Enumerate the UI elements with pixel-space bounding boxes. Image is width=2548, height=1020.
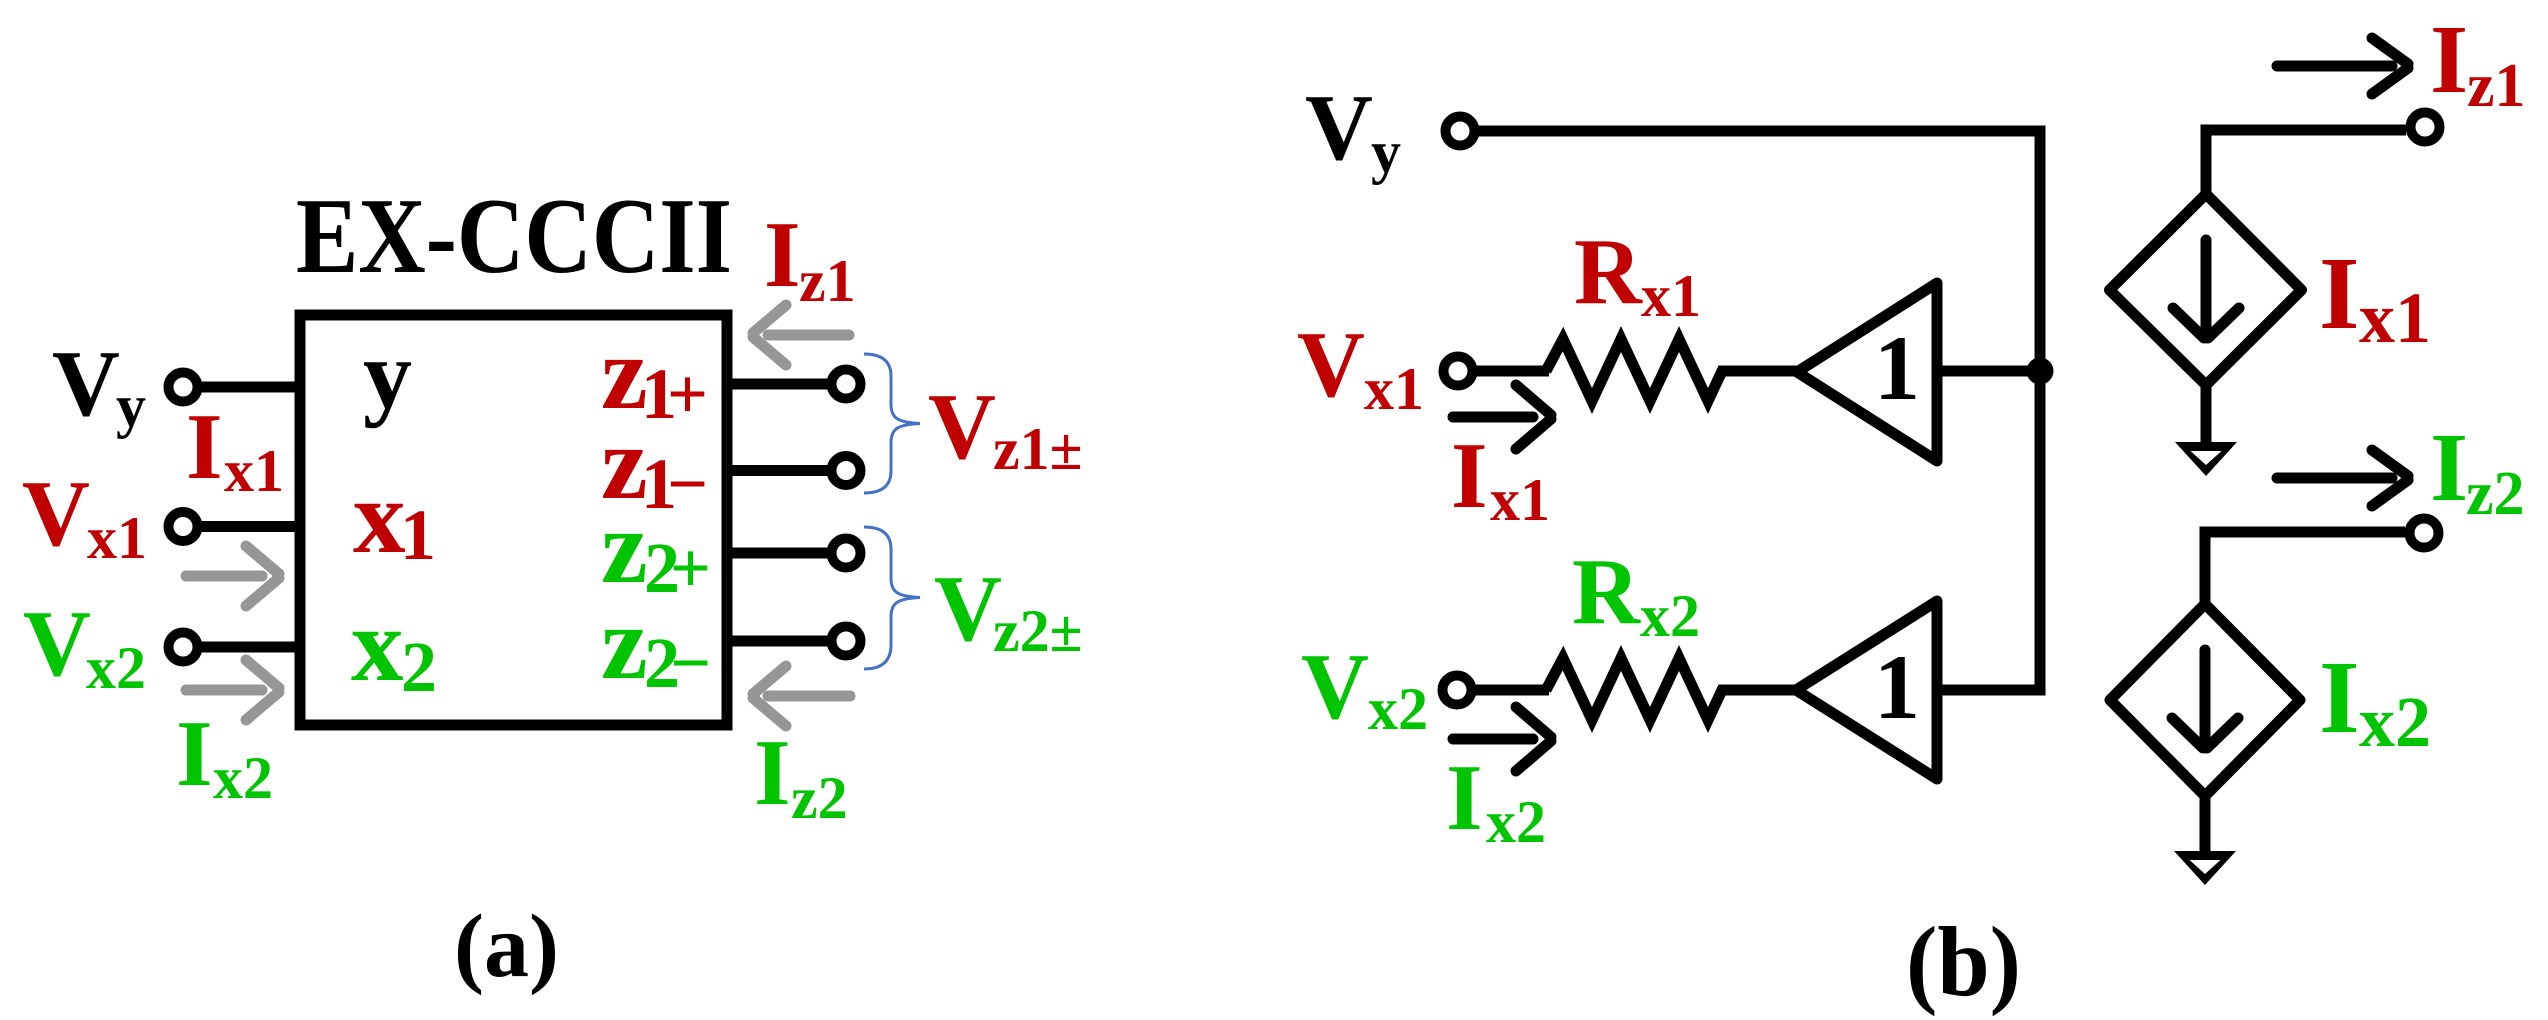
svg-text:EX-CCCII: EX-CCCII — [296, 177, 732, 296]
current arrow Ix2 (b) — [1453, 707, 1551, 771]
svg-text:y: y — [1371, 119, 1401, 185]
label Iz1 (b) — [2430, 6, 2526, 120]
svg-text:I: I — [2430, 6, 2468, 114]
current arrow Iz1 out — [2277, 38, 2408, 94]
svg-text:R: R — [1572, 540, 1641, 644]
block U1 EX-CCCII body — [300, 315, 727, 725]
svg-text:x2: x2 — [213, 745, 273, 811]
pin label x1 — [353, 458, 436, 575]
svg-text:V: V — [1297, 313, 1365, 417]
svg-text:I: I — [186, 395, 223, 499]
svg-text:x2: x2 — [86, 635, 146, 701]
wire CCCS1 to Iz1 terminal — [2206, 130, 2406, 196]
svg-text:x: x — [351, 586, 404, 703]
current arrow Ix1 into x1 — [186, 546, 279, 606]
label Vx1 (b) — [1297, 313, 1424, 422]
svg-text:(a): (a) — [454, 897, 559, 996]
svg-text:1+: 1+ — [641, 354, 708, 434]
svg-text:I: I — [176, 702, 213, 806]
svg-text:z1: z1 — [799, 248, 856, 314]
svg-text:R: R — [1574, 220, 1643, 324]
terminal Vy — [169, 373, 198, 402]
pin label z2+ — [601, 488, 711, 608]
svg-text:x2: x2 — [1640, 583, 1700, 649]
svg-text:I: I — [2319, 640, 2359, 755]
wire x2 to resistor — [1475, 685, 1549, 696]
svg-text:V: V — [23, 592, 91, 696]
pin label z2- — [601, 584, 711, 703]
label Iz1 (a) — [764, 203, 856, 314]
terminal z1- — [832, 456, 861, 485]
current source CCCS Ix1 diamond — [2110, 194, 2302, 385]
svg-text:y: y — [116, 373, 146, 439]
svg-text:V: V — [1305, 76, 1373, 180]
label Vx2 (a) — [23, 592, 146, 701]
label Ix1 (a) — [186, 395, 284, 504]
label Vy (b) — [1305, 76, 1401, 185]
wire y pin — [197, 382, 300, 393]
svg-text:z2±: z2± — [993, 598, 1083, 664]
pin label x2 — [351, 586, 437, 707]
current arrow Iz2 out — [2277, 450, 2408, 506]
current arrow Iz2 into z2 — [753, 666, 850, 726]
wire z2- pin — [727, 636, 828, 647]
wire Vy bus to buffers — [1477, 131, 2040, 690]
wire z1+ pin — [727, 379, 828, 390]
svg-text:x2: x2 — [1486, 789, 1546, 855]
caption (b) — [1906, 906, 2021, 1017]
label Iz2 (b) — [2430, 414, 2525, 528]
node junction dot — [2027, 358, 2054, 385]
svg-text:I: I — [754, 721, 791, 825]
buffer U2 gain 1 — [1797, 283, 1937, 461]
terminal Vx2 — [169, 633, 198, 662]
svg-text:x1: x1 — [1364, 356, 1424, 422]
svg-text:z: z — [601, 584, 648, 701]
svg-text:1: 1 — [1874, 317, 1920, 419]
svg-text:2−: 2− — [644, 623, 711, 703]
svg-text:x: x — [353, 458, 406, 575]
pin label z1+ — [601, 314, 708, 434]
pin label y — [363, 321, 412, 429]
svg-text:x1: x1 — [87, 505, 147, 571]
terminal Vx1 (b) — [1444, 357, 1473, 386]
pin label z1- — [601, 404, 708, 524]
current arrow Ix2 into x2 — [186, 660, 279, 720]
wire x1 to resistor — [1475, 366, 1549, 377]
terminal Vx1 — [169, 512, 198, 541]
label Iz2 (a) — [754, 721, 848, 831]
label Vx2 (b) — [1301, 635, 1428, 742]
wire buffer1 output — [1937, 366, 2040, 377]
svg-text:V: V — [934, 557, 1002, 661]
svg-text:z1: z1 — [2467, 52, 2526, 120]
svg-text:I: I — [1446, 746, 1483, 850]
svg-text:I: I — [764, 203, 801, 307]
svg-text:x1: x1 — [2359, 278, 2431, 358]
svg-text:z2: z2 — [2466, 460, 2525, 528]
terminal Vx2 (b) — [1443, 676, 1472, 705]
label Rx2 — [1572, 540, 1700, 649]
caption (a) — [454, 897, 559, 996]
buffer U3 gain 1 — [1796, 601, 1937, 779]
svg-text:1: 1 — [400, 495, 436, 575]
svg-text:V: V — [52, 332, 120, 436]
wire CCCS2 to Iz2 terminal — [2205, 532, 2405, 606]
label Rx1 — [1574, 220, 1701, 329]
label Vz1+- — [928, 375, 1083, 482]
svg-text:y: y — [363, 321, 412, 429]
terminal Iz1 — [2411, 113, 2440, 142]
wire x1 pin — [197, 521, 300, 532]
wire z1- pin — [727, 465, 828, 476]
svg-text:I: I — [2430, 414, 2468, 522]
ground arrowhead below CCCS2 — [2174, 798, 2236, 885]
current arrow Ix1 (b) — [1453, 385, 1551, 449]
svg-text:V: V — [1301, 635, 1369, 739]
terminal z2+ — [832, 539, 861, 568]
svg-text:V: V — [928, 375, 996, 479]
svg-text:2+: 2+ — [644, 528, 711, 608]
wire x2 pin — [197, 642, 300, 653]
svg-text:z2: z2 — [791, 765, 848, 831]
terminal z2- — [832, 627, 861, 656]
wire z2+ pin — [727, 548, 828, 559]
brace Vz2 — [864, 527, 920, 669]
brace Vz1 — [864, 354, 920, 493]
svg-text:x2: x2 — [1368, 676, 1428, 742]
ground arrowhead below CCCS1 — [2175, 387, 2237, 476]
label Ix1 (b) — [1451, 424, 1550, 533]
svg-text:x1: x1 — [1641, 263, 1701, 329]
title EX-CCCII — [296, 177, 732, 296]
svg-text:V: V — [22, 462, 90, 566]
label Ix1 source — [2319, 236, 2431, 358]
svg-text:x1: x1 — [1490, 467, 1550, 533]
terminal z1+ — [832, 370, 861, 399]
svg-text:2: 2 — [401, 627, 437, 707]
terminal Iz2 — [2410, 519, 2439, 548]
label Vz2+- — [934, 557, 1083, 664]
svg-text:z1±: z1± — [993, 416, 1083, 482]
svg-text:1−: 1− — [641, 444, 708, 524]
label Vy (a) — [52, 332, 146, 439]
svg-text:(b): (b) — [1906, 906, 2021, 1017]
label Ix2 source — [2319, 640, 2431, 762]
svg-text:I: I — [1451, 424, 1488, 528]
resistor Rx2 — [1546, 658, 1796, 720]
label Vx1 (a) — [22, 462, 147, 571]
svg-text:I: I — [2319, 236, 2359, 351]
current source CCCS Ix2 diamond — [2110, 604, 2300, 796]
label Ix2 (a) — [176, 702, 273, 811]
svg-text:1: 1 — [1874, 636, 1920, 738]
label Ix2 (b) — [1446, 746, 1546, 855]
svg-text:x2: x2 — [2359, 682, 2431, 762]
resistor Rx1 — [1546, 339, 1797, 401]
terminal Vy (b) — [1446, 117, 1475, 146]
svg-text:x1: x1 — [224, 438, 284, 504]
current arrow Iz1 into z1 — [753, 305, 849, 365]
